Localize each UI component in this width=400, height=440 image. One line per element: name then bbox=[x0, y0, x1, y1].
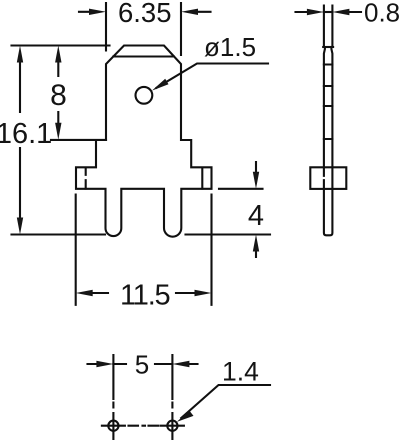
side view: bend ticks bbox=[324, 65, 333, 140]
dimension 6.35: arrows bbox=[79, 9, 211, 15]
dimension 5: text bbox=[135, 350, 149, 380]
front view: terminal outline bbox=[76, 46, 212, 237]
leader 1.4: arrow and leader line bbox=[177, 385, 270, 422]
dimension 4: lower extension line bbox=[186, 233, 271, 235]
dimension 11.5: text bbox=[120, 280, 170, 312]
dimension 4: arrows bbox=[253, 162, 259, 257]
dimension 8: lower extension line bbox=[51, 139, 106, 141]
svg-text:11.5: 11.5 bbox=[120, 280, 170, 312]
leader ø1.5: text bbox=[204, 32, 256, 62]
svg-text:5: 5 bbox=[135, 350, 149, 380]
bottom view: center line between pins bbox=[129, 425, 159, 427]
bottom view: right pin center marks bbox=[161, 413, 184, 439]
leader ø1.5: arrow and leader line bbox=[152, 64, 268, 91]
dimension 11.5: extension lines bbox=[76, 195, 212, 305]
side view: strip outline bbox=[323, 47, 333, 235]
dimension 16.1: text bbox=[0, 118, 52, 150]
dimension 6.35: text bbox=[118, 0, 172, 28]
dimension 4: text bbox=[248, 200, 264, 232]
dimension 16.1: extension lines bbox=[12, 46, 110, 235]
svg-text:4: 4 bbox=[248, 200, 264, 232]
svg-text:ø1.5: ø1.5 bbox=[204, 32, 256, 62]
dimension 8: text bbox=[50, 79, 67, 112]
bottom view: left pin circle bbox=[108, 421, 118, 431]
dimension 6.35: extension lines bbox=[106, 3, 181, 55]
dimension 5: arrows bbox=[88, 361, 198, 367]
svg-text:0.8: 0.8 bbox=[364, 0, 400, 28]
dimension 16.1: dimension line and arrows bbox=[17, 46, 23, 235]
dimension 4: upper extension line bbox=[219, 188, 263, 190]
side view: barb block bbox=[310, 167, 346, 189]
svg-text:8: 8 bbox=[50, 79, 67, 112]
svg-text:1.4: 1.4 bbox=[222, 357, 259, 387]
front view: left barb seam line (broken) bbox=[85, 168, 87, 188]
dimension 11.5: dimension line and arrows bbox=[76, 290, 212, 296]
dimension 0.8: arrows bbox=[296, 9, 362, 15]
dimension 8: dimension line and arrows bbox=[55, 46, 61, 140]
bottom view: right pin circle bbox=[167, 421, 177, 431]
svg-text:6.35: 6.35 bbox=[118, 0, 172, 28]
bottom view: left pin center marks bbox=[102, 413, 125, 439]
front view: tip chamfer line bbox=[113, 55, 174, 57]
side view: extension lines above part bbox=[324, 6, 333, 48]
front view: hole ø1.5 bbox=[136, 87, 153, 104]
dimension 0.8: text bbox=[364, 0, 400, 28]
front view: right barb seam line bbox=[201, 168, 203, 189]
svg-text:16.1: 16.1 bbox=[0, 118, 52, 150]
leader 1.4: text bbox=[222, 357, 259, 387]
dimension 5: extension lines bbox=[113, 355, 172, 408]
